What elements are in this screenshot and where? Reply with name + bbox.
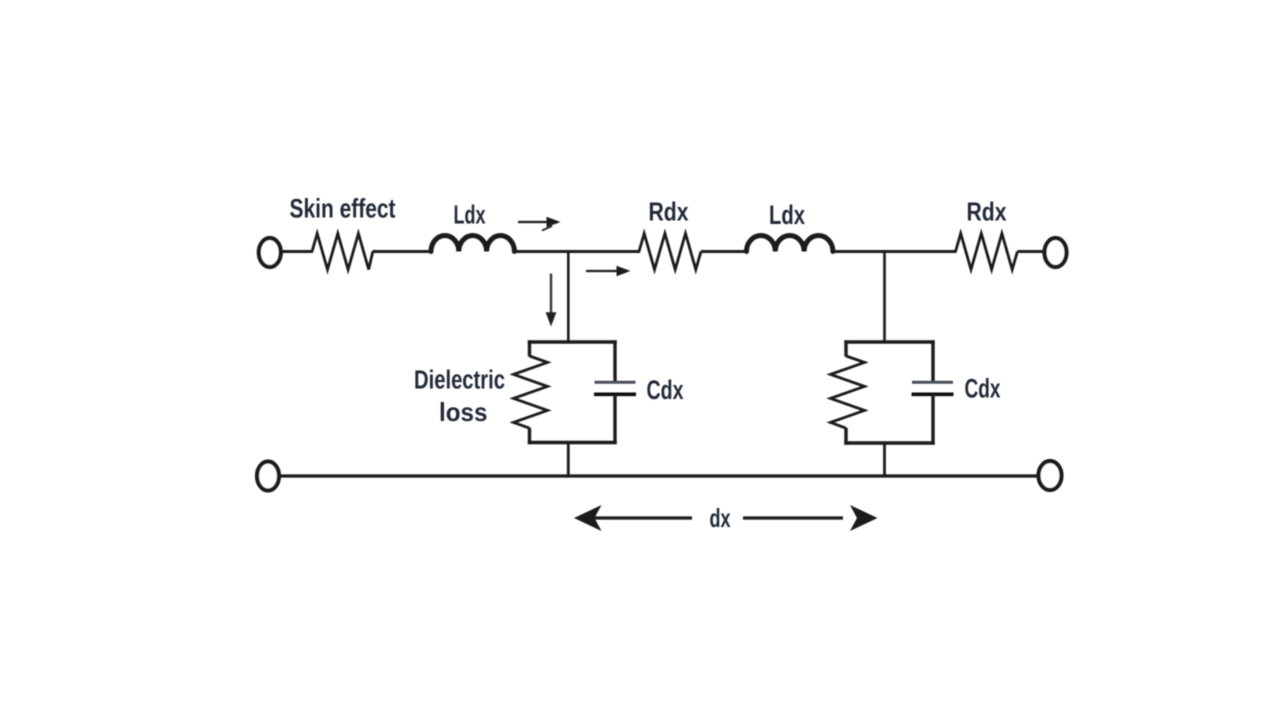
resistor Rdx 2 (right) bbox=[956, 234, 1018, 270]
svg-text:Skin effect: Skin effect bbox=[290, 194, 396, 224]
node 1 vertical wire bbox=[567, 252, 570, 344]
dx left shaft bbox=[593, 516, 692, 519]
svg-text:Ldx: Ldx bbox=[769, 200, 805, 230]
terminal bottom-right bbox=[1039, 461, 1062, 490]
box2 left stub bottom bbox=[844, 428, 847, 445]
resistor dielectric-loss (vertical zigzag) bbox=[514, 356, 548, 428]
svg-text:Ldx: Ldx bbox=[454, 200, 486, 230]
svg-text:Cdx: Cdx bbox=[965, 374, 1001, 404]
dx right arrowhead bbox=[850, 505, 878, 531]
capacitor C1 bottom plate bbox=[594, 392, 636, 396]
shunt box 1 (dielectric loss R parallel Cdx) bbox=[514, 340, 637, 444]
wire top bus: inductor2 to Rdx2 bbox=[833, 250, 957, 253]
ground bus (bottom rail) bbox=[278, 474, 1038, 477]
box1 right side lower bbox=[613, 394, 616, 444]
svg-text:Cdx: Cdx bbox=[647, 375, 684, 405]
wire top-left lead bbox=[282, 250, 314, 253]
box2 top edge bbox=[844, 340, 934, 343]
box2 right side upper bbox=[931, 340, 934, 381]
svg-text:Rdx: Rdx bbox=[967, 197, 1007, 227]
arrow current (top, right-pointing) bbox=[518, 217, 561, 231]
resistor skin-effect bbox=[312, 234, 373, 270]
svg-text:loss: loss bbox=[439, 397, 488, 427]
box2 right side lower bbox=[931, 394, 934, 444]
wire to terminal top-right bbox=[1017, 250, 1045, 253]
box2 bottom stub to ground bus bbox=[883, 443, 886, 477]
box1 right side upper (to capacitor) bbox=[613, 340, 616, 381]
box1 bottom edge bbox=[528, 441, 617, 444]
terminal top-right bbox=[1045, 238, 1067, 267]
shunt box 2 (R parallel Cdx) bbox=[831, 340, 954, 444]
svg-text:Rdx: Rdx bbox=[649, 197, 689, 227]
capacitor C2 top plate bbox=[912, 381, 953, 384]
capacitor C1 top plate bbox=[595, 381, 636, 384]
box1 bottom stub to ground bus bbox=[567, 443, 570, 478]
dx dimension arrow bbox=[574, 503, 878, 533]
wire after skin resistor bbox=[373, 250, 433, 253]
inductor L1 Ldx bbox=[431, 236, 514, 252]
resistor Rdx 1 bbox=[639, 234, 701, 270]
svg-text:dx: dx bbox=[710, 503, 731, 533]
box1 left stub bottom bbox=[528, 428, 531, 444]
inductor L2 Ldx bbox=[747, 236, 833, 252]
node 2 vertical wire bbox=[883, 252, 886, 344]
box1 left stub top bbox=[528, 340, 531, 356]
terminal top-left bbox=[259, 238, 281, 267]
dx left arrowhead bbox=[574, 505, 602, 531]
dx right shaft bbox=[743, 516, 843, 519]
box2 bottom edge bbox=[844, 441, 934, 444]
terminal bottom-left bbox=[257, 462, 279, 491]
wire top bus: inductor1 to Rdx1 bbox=[514, 250, 640, 253]
capacitor C2 bottom plate bbox=[912, 392, 954, 396]
arrow down (shunt current) bbox=[546, 274, 557, 327]
box1 top edge bbox=[528, 340, 617, 343]
svg-text:Dielectric: Dielectric bbox=[414, 367, 505, 395]
box2 left stub top bbox=[844, 340, 847, 356]
resistor box2 (vertical zigzag) bbox=[831, 356, 865, 428]
wire Rdx1 to inductor2 bbox=[701, 250, 748, 253]
arrow current (below bus, right-pointing) bbox=[586, 266, 631, 276]
